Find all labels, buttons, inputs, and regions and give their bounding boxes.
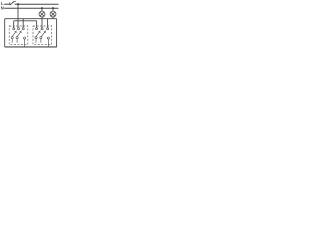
wire drop to box2 left terminal (36, 21, 38, 28)
wire right riser x56.6 (56, 19, 58, 48)
blade 2 box2 (41, 31, 46, 37)
wire drop to box1 right terminal (22, 19, 24, 28)
tick 1 box1 (15, 31, 17, 32)
tick 2 box2 (44, 31, 46, 32)
blade 1 box2 (36, 31, 40, 37)
terminal circles top box2 (36, 28, 38, 30)
stems down box2 (36, 39, 48, 47)
background (0, 0, 60, 50)
wire left riser x4.5 (4, 19, 6, 47)
wire run A horizontal y18.5 (5, 18, 57, 20)
tick 1 box2 (39, 31, 41, 32)
wire lamp E1 stem down into box2 (41, 17, 43, 28)
lamp E2 (50, 11, 56, 17)
wire drop to box1 left terminal (13, 21, 15, 28)
wire lamp E2 stem (52, 17, 54, 19)
wire lamp E1 drop from N (41, 8, 43, 11)
bottom terminal circles box2 (35, 37, 37, 39)
box2 dashed enclosure (33, 26, 52, 45)
node junction dot on L at x18 (17, 3, 19, 5)
blade 2 box1 (17, 31, 21, 37)
lamp E1 (39, 11, 45, 17)
wire N line (4, 7, 58, 9)
wire L feed drop x18 (17, 4, 19, 28)
node junction dot on N at x42 (41, 7, 43, 9)
wire lamp E2 drop from N (52, 8, 54, 11)
node junction dot on N at x53 (52, 7, 54, 9)
switch S0 actuator tick (12, 1, 15, 2)
terminal circles top box1 (13, 28, 15, 30)
wire run B horizontal y20.6 (14, 20, 37, 22)
svg-text:N: N (1, 5, 4, 10)
switch S0 blade on L line (10, 1, 14, 5)
tick 2 box1 (20, 31, 22, 32)
wire L line left segment (4, 3, 9, 5)
switch unit Q2 in box2 (35, 28, 50, 47)
wire drop to box2 right terminal (47, 19, 49, 28)
box1 dashed enclosure (9, 26, 28, 45)
wire bottom bus (5, 46, 57, 48)
blade 1 box1 (12, 31, 16, 37)
bottom terminal circles box1 (11, 37, 13, 39)
switch unit Q1 in box1 (11, 28, 26, 47)
stems down box1 (12, 39, 24, 47)
switch S0 pivot tick (9, 2, 11, 4)
wire L line right segment (15, 3, 59, 5)
